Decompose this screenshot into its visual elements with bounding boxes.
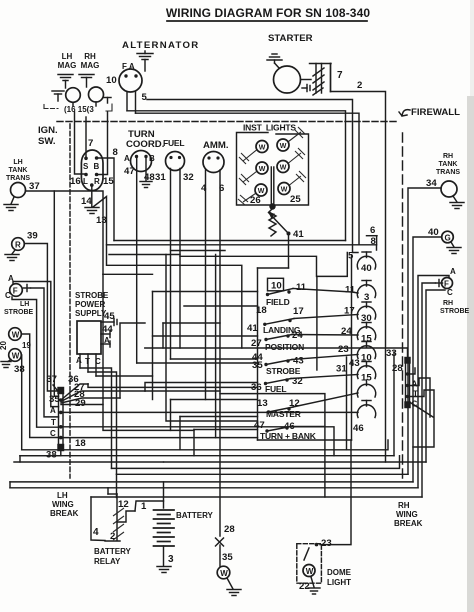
wire LH tank ground stem (11, 197, 14, 204)
wire conn T right (63, 427, 334, 456)
connector dots (59, 398, 63, 402)
terminal T below mags (104, 98, 111, 104)
wire 4 to relay (91, 497, 105, 541)
svg-text:5: 5 (142, 92, 148, 103)
label 10 boxed (268, 278, 284, 291)
wire ign S up (85, 117, 87, 158)
svg-text:A: A (50, 406, 56, 415)
lamp W1 ray (239, 150, 257, 164)
wire mesh v215 (215, 255, 217, 438)
svg-text:13: 13 (96, 215, 107, 226)
wire rh strobe C (426, 290, 445, 462)
svg-text:2: 2 (357, 80, 362, 91)
svg-text:C: C (447, 288, 453, 297)
svg-text:ALTERNATOR: ALTERNATOR (122, 40, 200, 51)
relay hatch (113, 508, 124, 540)
terminal 44 (101, 331, 110, 338)
wire master to blank1 (293, 393, 358, 407)
wire amm left down (205, 170, 207, 400)
bracket right (106, 104, 112, 111)
svg-text:R: R (15, 241, 21, 250)
svg-text:FIELD: FIELD (266, 297, 290, 307)
wire fuel left down (170, 169, 172, 360)
svg-text:BATTERY: BATTERY (94, 547, 132, 556)
connector bracket 16 15 3 (44, 105, 58, 109)
wire amm right down (219, 170, 221, 536)
fuel terminal left (169, 156, 172, 159)
conn fan wire 29 (61, 404, 103, 406)
svg-text:MAG: MAG (58, 61, 77, 70)
ground turn B (140, 182, 152, 188)
rheostat zigzag (269, 209, 276, 237)
ign terminal L (84, 173, 88, 177)
ign terminal B (95, 156, 99, 160)
svg-text:6: 6 (370, 225, 375, 236)
svg-text:35: 35 (252, 360, 263, 371)
lamp W3 (255, 184, 267, 196)
wire conn bottom 18 (20, 450, 61, 456)
svg-text:FUEL: FUEL (163, 138, 184, 148)
ign terminal S (84, 157, 88, 161)
solenoid ground ticks (302, 85, 310, 92)
nav lamp W lower (9, 349, 22, 362)
nav lamp W upper (9, 328, 22, 341)
svg-text:POWER: POWER (75, 300, 105, 309)
wire mesh v194 (193, 430, 195, 456)
wire sps T down (87, 354, 89, 372)
starter solenoid hatched (310, 64, 332, 96)
svg-text:3: 3 (168, 554, 174, 565)
svg-text:RH: RH (443, 300, 453, 307)
title (166, 6, 370, 21)
wire 47 to switch (137, 362, 258, 364)
LH tank transmitter (11, 183, 26, 198)
breaker 40 (357, 252, 375, 269)
switch box left edge (257, 268, 259, 440)
wire mesh v180b (179, 417, 181, 450)
svg-text:STARTER: STARTER (268, 33, 313, 44)
svg-text:8: 8 (113, 147, 119, 158)
svg-text:W: W (12, 352, 20, 361)
firewall dashed vertical RH (402, 133, 404, 481)
wire alt F drop (126, 92, 128, 111)
svg-text:16: 16 (70, 176, 81, 187)
wire dome drop (320, 440, 351, 545)
wire mesh h387 (88, 384, 258, 387)
terminal 45 (101, 319, 117, 326)
svg-text:W: W (12, 331, 20, 340)
svg-text:SUPPLY: SUPPLY (75, 309, 107, 318)
svg-text:LIGHT: LIGHT (327, 578, 351, 587)
wire 2 horizontal (331, 92, 386, 463)
svg-text:20: 20 (0, 341, 8, 350)
wire mesh landing left (145, 347, 408, 349)
wire x to w (219, 545, 221, 566)
wire relay feed 1 (107, 488, 109, 494)
wire LH mag to ign L (75, 112, 86, 174)
wire bottom h481 (10, 481, 413, 483)
wire mesh h274 (103, 273, 153, 275)
ground right of alternator (137, 51, 153, 71)
wire L1 feed (180, 253, 347, 277)
svg-text:F A: F A (122, 62, 135, 71)
wire sps A down (79, 354, 81, 368)
svg-text:RELAY: RELAY (94, 557, 121, 566)
wire tb right (291, 426, 325, 428)
svg-text:TANK: TANK (439, 161, 458, 168)
lamp W5 (277, 161, 289, 173)
svg-text:A: A (124, 154, 130, 163)
wire v317 (316, 276, 318, 370)
switch box right edge (351, 255, 353, 440)
wire bottom left drop1 (19, 456, 21, 462)
wire fuel right down (179, 169, 181, 349)
wire bottom h462 (14, 461, 426, 463)
svg-text:AMM.: AMM. (203, 140, 229, 151)
wire 7 vertical (330, 64, 332, 92)
wire fuel to cup15b (291, 375, 358, 379)
lamp W bottom (217, 566, 230, 579)
wire starter to solenoid (301, 79, 312, 81)
breaker blank2 (357, 401, 375, 418)
wire sps A run (80, 368, 112, 468)
wire mesh h359 (171, 358, 258, 360)
wire mesh h413 (180, 416, 258, 418)
svg-text:A: A (450, 267, 456, 276)
splice X (216, 538, 224, 546)
lamp W4 (277, 139, 289, 151)
terminal A sps (101, 341, 110, 347)
breaker 30 (357, 302, 375, 319)
conn fan wire 36 (61, 384, 88, 400)
magneto RH MAG (89, 87, 104, 102)
svg-text:G: G (445, 234, 451, 243)
wire v346 (346, 357, 348, 450)
wire 36 run (87, 383, 89, 385)
svg-text:TANK: TANK (9, 167, 28, 174)
fuel terminal right (178, 156, 181, 159)
switch TURN BANK (265, 426, 291, 432)
node inst bottom (269, 203, 275, 209)
ammeter gauge (203, 152, 224, 173)
svg-text:RH: RH (84, 52, 96, 61)
svg-text:39: 39 (27, 231, 38, 242)
wire conn C right (63, 437, 258, 439)
svg-text:13: 13 (257, 398, 268, 409)
svg-text:35: 35 (49, 394, 60, 405)
svg-text:STROBE: STROBE (75, 291, 109, 300)
svg-text:33: 33 (386, 348, 397, 359)
svg-text:POSITION: POSITION (265, 342, 304, 352)
ign terminal bottom (90, 183, 94, 187)
svg-text:BATTERY: BATTERY (176, 511, 214, 520)
svg-text:23: 23 (321, 538, 332, 549)
wire battery feed riser (163, 482, 165, 501)
svg-text:W: W (220, 569, 228, 578)
wire 27 run (144, 390, 146, 392)
svg-text:(16 15(3: (16 15(3 (64, 105, 94, 114)
switch box top edge (258, 267, 289, 269)
wire landing to cup30 (294, 315, 358, 319)
ground RH tank (450, 196, 464, 209)
svg-text:24: 24 (292, 330, 303, 341)
wire mesh h323 b (163, 322, 220, 324)
svg-text:12: 12 (118, 499, 129, 510)
svg-text:11: 11 (296, 282, 307, 293)
svg-text:37: 37 (46, 374, 57, 385)
svg-text:7: 7 (88, 138, 93, 149)
svg-text:WING: WING (52, 500, 74, 509)
svg-text:STROBE: STROBE (4, 309, 34, 316)
alternator terminal F (124, 74, 127, 77)
relay step wire (117, 511, 135, 522)
terminal T lh strobe (24, 285, 31, 292)
svg-text:31: 31 (336, 364, 347, 375)
wire 5 run (147, 100, 358, 253)
svg-text:41: 41 (293, 229, 304, 240)
lamp W2 (256, 162, 268, 174)
switch MASTER (267, 407, 293, 414)
wire relay to battery (135, 501, 164, 511)
svg-text:FUEL: FUEL (265, 384, 286, 394)
wire sps T run (88, 372, 117, 474)
wire mesh h421 (166, 255, 258, 422)
wire mesh h336 (153, 335, 258, 337)
wire 39 right (24, 244, 58, 392)
svg-text:W: W (281, 187, 288, 194)
svg-text:15: 15 (103, 176, 114, 187)
svg-text:TRANS: TRANS (6, 175, 30, 182)
wire strobe to cup10 (292, 355, 358, 360)
wire fuel31 run (171, 250, 226, 252)
wire bottom h497 (91, 496, 422, 498)
wire bottom h487 (10, 487, 418, 489)
wire lh strobe T (31, 288, 59, 417)
connector block LH wing (58, 388, 64, 451)
beacon G (442, 231, 454, 243)
wire bus 6 (127, 111, 346, 241)
wire W upper right (21, 334, 58, 438)
wire mesh v163 (162, 323, 164, 348)
wire relay feed 2 (116, 474, 118, 497)
wire 41 drop (288, 234, 290, 269)
svg-text:W: W (280, 143, 287, 150)
svg-text:26: 26 (250, 195, 261, 206)
wire mesh v103 (103, 274, 194, 430)
terminal T rh strobe (436, 280, 443, 287)
svg-text:17: 17 (293, 306, 304, 317)
svg-text:LH: LH (62, 52, 73, 61)
connector block RH wing (405, 358, 410, 408)
svg-text:1: 1 (141, 501, 147, 512)
breaker 3 (357, 281, 375, 298)
firewall dashed horizontal (57, 121, 397, 123)
starter motor (274, 66, 301, 93)
wire rh strobe T (422, 283, 436, 497)
svg-text:W: W (259, 166, 266, 173)
svg-text:BREAK: BREAK (394, 519, 423, 528)
svg-text:IGN.: IGN. (38, 125, 58, 136)
wire sps C run (96, 292, 153, 377)
battery cells (154, 510, 175, 546)
conn fan wire 28 (61, 398, 120, 403)
wire rh conn top (407, 348, 409, 358)
wire position to cup15a (292, 334, 358, 337)
svg-text:40: 40 (361, 263, 372, 274)
wire turn B ground stem (145, 158, 147, 181)
wire dome ground stem (311, 577, 314, 587)
svg-text:TRANS: TRANS (436, 169, 460, 176)
ground G (447, 242, 461, 254)
svg-text:T: T (51, 418, 56, 427)
ground R (5, 255, 19, 261)
wire sps C down (95, 354, 97, 376)
turn coord terminal A (135, 155, 138, 158)
wire RH mag to ign R (97, 112, 108, 175)
terminal 6 bar (367, 236, 378, 245)
wire mesh h323 (120, 323, 145, 398)
wire ign bottom to ground (91, 185, 93, 207)
svg-text:WING: WING (396, 510, 418, 519)
wire bottom h474 (117, 473, 409, 475)
inst lights box right (275, 134, 309, 205)
svg-text:10: 10 (106, 75, 117, 86)
ground battery (157, 567, 171, 573)
svg-text:TURN + BANK: TURN + BANK (260, 431, 317, 441)
wing break dashed vertical LH (69, 124, 71, 478)
svg-text:MAG: MAG (81, 61, 100, 70)
breaker 10 (357, 342, 375, 359)
wire rh conn loop2 (410, 390, 435, 447)
wire R ground stem (12, 250, 15, 254)
svg-text:4: 4 (93, 527, 99, 538)
wire rh conn A (410, 368, 416, 374)
ignition switch oval (81, 150, 103, 191)
wire lh strobe C (12, 297, 59, 427)
strobe power supply box (77, 321, 101, 354)
svg-text:STROBE: STROBE (440, 308, 470, 315)
ground W lamps (1, 360, 11, 368)
wire bus 8 (136, 113, 360, 245)
lamp W2 ray (239, 172, 257, 186)
node 41 (287, 232, 291, 236)
svg-text:R: R (94, 177, 100, 186)
switch POSITION (264, 334, 292, 341)
wire mesh field left (153, 291, 258, 293)
switch FUEL (264, 378, 291, 385)
wire conn A right (63, 411, 358, 413)
svg-text:W: W (258, 188, 265, 195)
battery relay frame (105, 494, 120, 541)
svg-text:RH: RH (443, 153, 453, 160)
wire 37 right (26, 191, 104, 274)
svg-text:F: F (13, 287, 18, 296)
ground w bottom (227, 590, 241, 596)
svg-text:32: 32 (183, 172, 194, 183)
wire bottom h449 (22, 440, 388, 450)
wire mag LH drop (72, 102, 74, 106)
wire mesh h429 (194, 429, 258, 431)
ign terminal R (95, 173, 99, 177)
svg-text:7: 7 (337, 70, 343, 81)
svg-text:WIRING DIAGRAM FOR SN 108-340: WIRING DIAGRAM FOR SN 108-340 (166, 6, 370, 20)
svg-text:14: 14 (81, 196, 92, 207)
alternator terminal A (134, 74, 137, 77)
dome switch lever (304, 548, 309, 560)
breaker 15b (357, 362, 375, 379)
amm terminal left (207, 156, 210, 159)
wire mesh v145 (145, 383, 258, 392)
svg-text:46: 46 (353, 423, 364, 434)
svg-text:43: 43 (349, 358, 360, 369)
wire battery down (163, 546, 165, 566)
rheostat arrow (269, 213, 289, 234)
dome dashed box (297, 544, 322, 584)
wire bottom left drop2 (9, 482, 11, 488)
svg-text:10: 10 (271, 281, 282, 292)
svg-text:L: L (83, 177, 88, 186)
RH tank transmitter (441, 181, 457, 197)
wire w ground stem (227, 578, 233, 589)
wire bottom h468 (112, 456, 400, 469)
svg-text:STROBE: STROBE (266, 366, 301, 376)
wire W lower right (20, 355, 22, 450)
svg-text:23: 23 (338, 344, 349, 355)
svg-text:A: A (76, 356, 82, 365)
wire alt A drop (135, 92, 137, 114)
wire inst center pair (271, 167, 274, 205)
svg-text:31: 31 (155, 172, 166, 183)
svg-text:FIREWALL: FIREWALL (411, 107, 460, 118)
ground above LH MAG (58, 75, 73, 89)
switch STROBE (264, 359, 292, 366)
wire turn A down (136, 158, 138, 363)
wire batt plus (163, 461, 165, 463)
wire 37 into conn (53, 385, 59, 392)
wire bus D (109, 254, 180, 256)
svg-text:LH: LH (57, 491, 68, 500)
svg-text:W: W (280, 165, 287, 172)
lamp W6 (278, 183, 290, 195)
ground above starter (267, 54, 282, 68)
magneto LH MAG (66, 88, 81, 103)
svg-text:MASTER: MASTER (266, 409, 301, 419)
wire v325 (220, 394, 325, 497)
ground ign sw (85, 208, 99, 214)
wire 33 into conn (393, 352, 395, 456)
wire ign B to 8 (97, 158, 114, 241)
wire bus B (107, 245, 377, 250)
wire bottom h455 (20, 455, 394, 457)
wire rh strobe A (418, 276, 449, 488)
svg-text:W: W (306, 567, 314, 576)
conn fan wire 27 (61, 391, 220, 402)
svg-text:41: 41 (247, 323, 258, 334)
wire mesh h408 (152, 376, 154, 400)
svg-text:47: 47 (124, 166, 135, 177)
svg-text:B: B (149, 154, 155, 163)
wire mesh h399 (171, 399, 258, 401)
svg-text:38: 38 (14, 364, 25, 375)
turn coordinator gauge (131, 151, 152, 172)
fuel gauge (166, 152, 185, 171)
svg-text:S: S (83, 162, 89, 171)
node 23 (315, 543, 319, 547)
svg-text:22: 22 (299, 581, 310, 592)
wire lh strobe A (13, 282, 59, 407)
ground LH tank (4, 205, 18, 211)
svg-text:B: B (94, 162, 100, 171)
